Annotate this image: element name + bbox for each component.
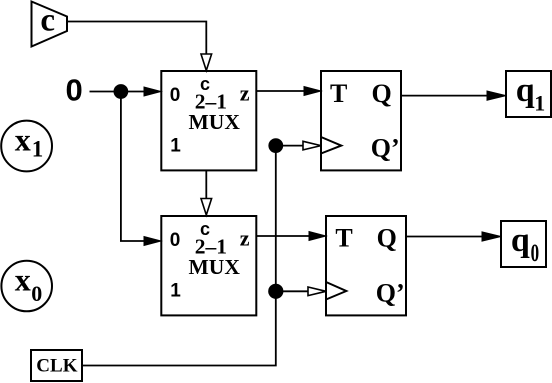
- output box q0: [501, 221, 546, 267]
- svg-text:x: x: [15, 121, 31, 157]
- input x0 circle: [1, 261, 52, 312]
- svg-text:T: T: [330, 79, 347, 108]
- svg-text:q: q: [511, 222, 530, 259]
- svg-text:z: z: [240, 226, 250, 251]
- wire Q1 to q1: [401, 95, 489, 97]
- junction dot clk to U4: [268, 284, 283, 299]
- svg-text:Q: Q: [372, 79, 392, 108]
- mux U2 box: [161, 216, 256, 315]
- wire 0 to MUX1: [90, 91, 148, 93]
- filled arrowhead into T2: [309, 232, 326, 241]
- svg-text:0: 0: [66, 73, 83, 108]
- flip-flop U4 box (T): [326, 216, 406, 315]
- open arrowhead into U3 clock: [303, 141, 321, 150]
- svg-text:c: c: [40, 3, 55, 39]
- svg-text:1: 1: [534, 90, 545, 115]
- open arrowhead into U4 clock: [308, 287, 326, 296]
- wire MUX1 z to MUX2 select: [205, 170, 207, 199]
- svg-text:0: 0: [170, 85, 181, 106]
- svg-text:Q: Q: [377, 223, 397, 252]
- wire Q2 to q0: [406, 236, 484, 238]
- filled arrowhead into T1: [304, 87, 321, 96]
- wire c to MUX1 select: [67, 22, 206, 56]
- svg-text:1: 1: [170, 136, 181, 157]
- wire z2 to T input: [256, 235, 312, 237]
- filled arrowhead into q1: [487, 91, 506, 100]
- svg-text:0: 0: [531, 240, 540, 267]
- filled arrowhead into q0: [482, 232, 501, 241]
- svg-text:x: x: [15, 261, 31, 297]
- svg-text:MUX: MUX: [189, 255, 241, 279]
- filled arrowhead into MUX2 0 input: [144, 237, 161, 246]
- junction dot clk to U3: [268, 138, 283, 153]
- svg-text:0: 0: [170, 230, 181, 251]
- junction dot at 0 branch: [114, 84, 129, 99]
- open arrowhead into MUX1 select: [201, 54, 212, 71]
- wire clk junction to U4 clock: [276, 290, 308, 292]
- svg-text:z: z: [240, 81, 250, 106]
- flip-flop U3 box (T): [321, 71, 401, 170]
- wire clk junction to U3 clock: [276, 145, 303, 147]
- mux U1 box: [161, 71, 256, 170]
- svg-text:1: 1: [32, 136, 44, 161]
- svg-text:q: q: [516, 72, 535, 109]
- clock chevron U4: [326, 282, 346, 300]
- svg-text:CLK: CLK: [36, 355, 77, 376]
- svg-text:Q’: Q’: [371, 133, 400, 162]
- filled arrowhead into MUX1 0 input: [144, 87, 161, 96]
- input port c: [32, 2, 68, 47]
- clock chevron U3: [321, 137, 341, 154]
- svg-text:T: T: [335, 223, 352, 252]
- svg-text:Q’: Q’: [376, 278, 405, 307]
- svg-text:1: 1: [170, 281, 181, 302]
- svg-text:MUX: MUX: [189, 110, 241, 134]
- wire z1 to T input: [256, 90, 307, 92]
- svg-text:0: 0: [31, 281, 42, 306]
- wire junction down to MUX2 0 input: [121, 92, 147, 242]
- input x1 circle: [1, 121, 52, 172]
- CLK box: [31, 350, 82, 381]
- open arrowhead into MUX2 select: [201, 199, 212, 216]
- output box q1: [506, 71, 551, 117]
- CLK wire: [82, 146, 276, 366]
